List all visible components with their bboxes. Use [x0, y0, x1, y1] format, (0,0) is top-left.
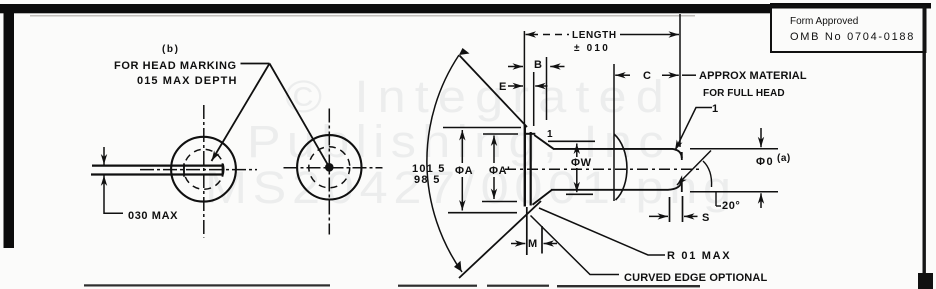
svg-text:ΦW: ΦW — [571, 157, 592, 169]
dim B right arrow — [550, 66, 564, 68]
dim phi0 bottom arrow — [760, 193, 762, 208]
dim C extension line — [613, 64, 615, 201]
svg-text:B: B — [534, 59, 543, 71]
dim phi0 bottom extension — [690, 191, 778, 193]
head marking leader right branch to dot — [270, 64, 330, 168]
dim phi0 top extension — [690, 148, 778, 150]
left view: slot top line with left extension — [92, 165, 224, 167]
20 deg leader tick — [716, 205, 721, 207]
dim LENGTH line left arrow — [526, 34, 539, 36]
left view: slot left end cap — [183, 163, 185, 176]
svg-text:OMB No 0704-0188: OMB No 0704-0188 — [790, 31, 915, 43]
page border right line — [923, 5, 926, 289]
dim 030 MAX lower arrow — [103, 175, 105, 187]
dim phiA' top extension — [483, 133, 518, 135]
dim M right arrow — [544, 243, 558, 245]
side view: cone top edge — [534, 135, 553, 149]
left view: circle 1 horizontal centerline — [140, 169, 257, 171]
dim B right extension line — [546, 57, 548, 120]
dim phiA line upper — [461, 130, 463, 163]
side view: break symbol curve — [614, 134, 627, 200]
dim phiA' line upper — [493, 136, 495, 164]
head marking leader left branch to slot — [212, 64, 270, 162]
dim phiA top extension — [443, 127, 521, 129]
svg-text:ΦA': ΦA' — [489, 165, 510, 177]
side view: countersink angle arc — [427, 55, 462, 272]
svg-text:E: E — [499, 81, 507, 93]
side view: screw centerline — [505, 168, 700, 170]
left view: head circle 1 dashed inner circle — [184, 149, 224, 189]
page border left bar — [4, 4, 15, 248]
dim E extension line — [533, 72, 535, 126]
side view: head slot bottom face — [530, 132, 532, 206]
dim C left arrow — [615, 74, 630, 76]
svg-text:FOR HEAD MARKING: FOR HEAD MARKING — [114, 60, 237, 72]
dim S left arrow — [649, 215, 668, 217]
dim phiA bottom extension — [448, 212, 517, 214]
dim phi0 top arrow — [760, 128, 762, 147]
side view: angle arc top arrowhead — [459, 48, 470, 55]
dim phiA' line lower — [493, 177, 495, 199]
side view: angle arc bottom arrowhead — [454, 261, 462, 272]
dim S right extension — [682, 196, 684, 222]
left view: circle 2 horizontal centerline — [284, 167, 383, 169]
dim phiW upper arrow — [576, 144, 578, 158]
svg-text:Form Approved: Form Approved — [790, 16, 858, 27]
svg-text:Φ0: Φ0 — [756, 156, 774, 168]
head marking dot on circle 2 — [325, 163, 334, 172]
side view: cone bottom edge — [533, 190, 553, 205]
page border bottom segment 3 — [557, 285, 700, 287]
left view: head circle 2 outline — [297, 135, 361, 199]
page border bottom segment 2 — [398, 285, 477, 287]
svg-text:FOR FULL HEAD: FOR FULL HEAD — [703, 88, 785, 99]
side view: shank bottom line — [551, 181, 682, 190]
side view: head flat face — [524, 125, 526, 207]
R 01 MAX leader — [539, 208, 665, 255]
svg-text:S: S — [702, 212, 710, 224]
dim phiW lower arrow — [576, 168, 578, 192]
svg-text:030 MAX: 030 MAX — [128, 210, 178, 222]
dim phiW top extension — [548, 140, 595, 142]
side view: shank top line — [553, 149, 682, 158]
20 deg vertical reference — [715, 191, 717, 206]
left view: slot bottom line with left extension — [91, 173, 224, 175]
dim S left extension — [669, 197, 671, 222]
dim 030 MAX upper arrow — [103, 147, 105, 165]
svg-text:015 MAX DEPTH: 015 MAX DEPTH — [137, 75, 238, 87]
OMB form approval box — [771, 6, 926, 52]
left view: circle 2 vertical centerline — [328, 109, 330, 235]
svg-text:± 010: ± 010 — [574, 43, 610, 54]
left view: head circle 1 outline — [171, 137, 236, 202]
dim LENGTH line dashes — [543, 34, 569, 36]
svg-text:LENGTH: LENGTH — [572, 30, 617, 41]
dim M right extension — [541, 226, 543, 254]
svg-text:C: C — [643, 70, 652, 82]
dim C right arrow — [662, 74, 679, 76]
svg-text:APPROX MATERIAL: APPROX MATERIAL — [699, 70, 807, 82]
svg-text:M: M — [528, 238, 538, 250]
svg-text:R 01 MAX: R 01 MAX — [667, 250, 731, 262]
svg-text:(b): (b) — [162, 44, 180, 55]
dim B left arrow — [508, 66, 523, 68]
svg-text:(a): (a) — [777, 153, 791, 164]
dim E left arrow — [508, 85, 523, 87]
svg-text:1: 1 — [712, 103, 719, 115]
head marking leader horizontal — [241, 63, 270, 65]
20 deg chamfer line with arrow — [677, 151, 711, 186]
side view: cone bottom extension leg — [459, 201, 541, 278]
dim phiA' bottom extension — [482, 201, 517, 203]
side view: cone top edge — [525, 133, 535, 135]
dim phiA line lower — [461, 177, 463, 211]
dim phiW bottom extension — [566, 193, 593, 195]
dim LENGTH extension line right — [679, 14, 681, 147]
svg-text:CURVED EDGE OPTIONAL: CURVED EDGE OPTIONAL — [624, 272, 767, 284]
page border top bar right thinner over OMB box — [770, 3, 931, 9]
dim M left arrow — [511, 243, 525, 245]
dim 030 MAX leader — [104, 187, 123, 213]
side view: cone top extension leg — [460, 56, 528, 128]
curved edge optional leader — [531, 216, 620, 275]
dim LENGTH line right arrow — [620, 34, 679, 36]
svg-text:98 5: 98 5 — [414, 174, 441, 186]
scan line under top bar — [30, 15, 695, 16]
dim E right arrow — [535, 85, 547, 87]
left view: head circle 2 dashed inner circle — [309, 147, 350, 188]
watermark — [205, 72, 737, 213]
svg-text:ΦA: ΦA — [455, 165, 473, 177]
page border bottom segment 1 — [84, 284, 330, 286]
dim M left extension — [526, 207, 528, 255]
side view: shank end face lower — [681, 180, 683, 192]
dim S right arrow — [684, 215, 698, 217]
20 deg angle arc — [703, 161, 712, 187]
dim LENGTH extension line left — [523, 31, 525, 126]
approx material leader stub — [682, 74, 696, 76]
svg-text:20°: 20° — [722, 200, 740, 212]
svg-text:1: 1 — [547, 129, 553, 140]
page border top bar — [0, 4, 772, 13]
page border bottom corner blob — [918, 273, 933, 289]
left view: circle 1 vertical centerline — [203, 105, 205, 238]
left view: slot right end cap — [222, 163, 224, 176]
note 1 leader (full head) — [675, 108, 712, 151]
side view: shank end face upper — [681, 152, 683, 160]
